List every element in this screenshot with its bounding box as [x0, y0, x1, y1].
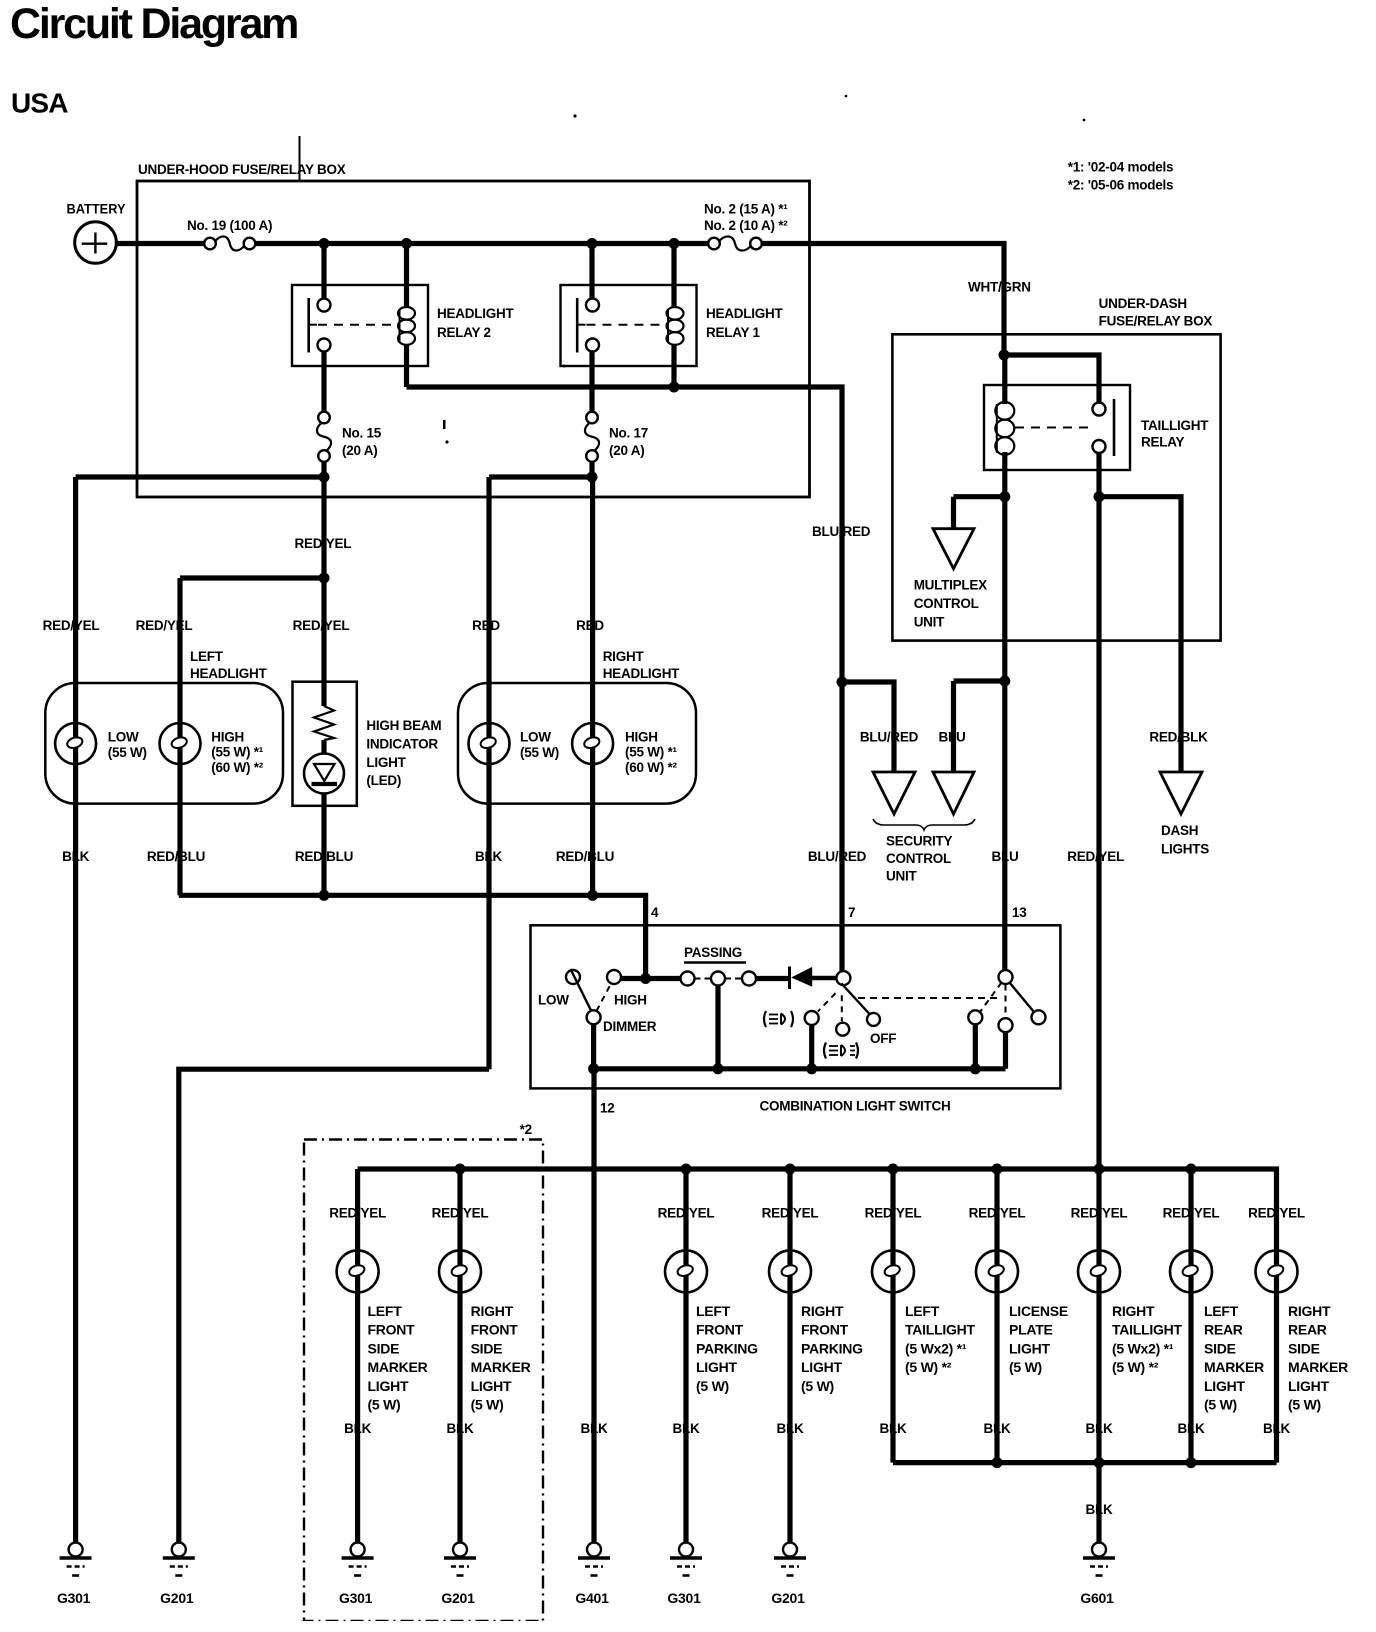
svg-text:DASH: DASH [1161, 823, 1198, 838]
svg-text:RED/YEL: RED/YEL [1248, 1206, 1305, 1221]
svg-text:BLK: BLK [62, 849, 89, 864]
svg-text:SECURITY: SECURITY [886, 834, 953, 849]
svg-text:HEADLIGHT: HEADLIGHT [190, 666, 267, 681]
svg-text:CONTROL: CONTROL [914, 596, 979, 611]
svg-text:(60 W) *²: (60 W) *² [211, 760, 264, 775]
svg-text:LEFT: LEFT [905, 1303, 940, 1319]
svg-text:HIGH: HIGH [614, 993, 647, 1008]
svg-text:No. 17: No. 17 [609, 426, 648, 441]
svg-text:RED/YEL: RED/YEL [43, 618, 100, 633]
svg-text:REAR: REAR [1288, 1322, 1327, 1338]
svg-text:RED/YEL: RED/YEL [969, 1206, 1026, 1221]
svg-text:(55 W): (55 W) [108, 745, 147, 760]
svg-text:(5 W): (5 W) [801, 1378, 834, 1394]
svg-text:RED: RED [576, 618, 604, 633]
svg-text:MARKER: MARKER [1204, 1359, 1264, 1375]
svg-text:TAILLIGHT: TAILLIGHT [1112, 1322, 1183, 1338]
svg-text:BLK: BLK [581, 1421, 608, 1436]
svg-text:G301: G301 [339, 1590, 373, 1606]
svg-text:LEFT: LEFT [368, 1303, 403, 1319]
svg-text:RED/BLK: RED/BLK [1149, 730, 1208, 745]
svg-text:BLK: BLK [1263, 1421, 1290, 1436]
svg-text:PLATE: PLATE [1009, 1322, 1053, 1338]
svg-text:HIGH BEAM: HIGH BEAM [366, 718, 441, 733]
svg-text:LOW: LOW [108, 730, 139, 745]
svg-text:LIGHT: LIGHT [471, 1378, 512, 1394]
svg-text:LEFT: LEFT [696, 1303, 731, 1319]
svg-text:UNDER-HOOD FUSE/RELAY BOX: UNDER-HOOD FUSE/RELAY BOX [138, 162, 346, 177]
svg-text:(LED): (LED) [366, 773, 401, 788]
svg-text:(20 A): (20 A) [342, 443, 378, 458]
svg-text:No. 2 (15 A) *¹: No. 2 (15 A) *¹ [704, 202, 788, 217]
svg-text:BLU/RED: BLU/RED [808, 849, 867, 864]
svg-text:LIGHT: LIGHT [801, 1359, 842, 1375]
svg-text:LIGHT: LIGHT [696, 1359, 737, 1375]
svg-text:(20 A): (20 A) [609, 443, 645, 458]
svg-text:G301: G301 [667, 1590, 701, 1606]
svg-text:RED/BLU: RED/BLU [147, 849, 205, 864]
svg-text:UNIT: UNIT [914, 615, 945, 630]
svg-text:REAR: REAR [1204, 1322, 1243, 1338]
svg-text:G401: G401 [575, 1590, 609, 1606]
svg-text:BATTERY: BATTERY [67, 202, 126, 217]
svg-text:FRONT: FRONT [368, 1322, 416, 1338]
svg-text:(5 W): (5 W) [471, 1397, 504, 1413]
svg-text:(60 W) *²: (60 W) *² [625, 760, 678, 775]
svg-text:BLK: BLK [673, 1421, 700, 1436]
svg-text:BLK: BLK [344, 1421, 371, 1436]
svg-text:*1: '02-04 models: *1: '02-04 models [1068, 160, 1174, 175]
svg-text:RED/BLU: RED/BLU [295, 849, 353, 864]
svg-text:SIDE: SIDE [1288, 1340, 1320, 1356]
svg-text:MARKER: MARKER [1288, 1359, 1348, 1375]
svg-text:RED/YEL: RED/YEL [1071, 1206, 1128, 1221]
svg-text:RED/YEL: RED/YEL [293, 618, 350, 633]
svg-text:SIDE: SIDE [1204, 1340, 1236, 1356]
svg-text:(55 W) *¹: (55 W) *¹ [625, 745, 678, 760]
svg-text:COMBINATION LIGHT SWITCH: COMBINATION LIGHT SWITCH [760, 1099, 951, 1114]
svg-text:G201: G201 [160, 1590, 194, 1606]
svg-text:BLK: BLK [447, 1421, 474, 1436]
svg-text:HIGH: HIGH [211, 730, 244, 745]
svg-text:WHT/GRN: WHT/GRN [968, 280, 1031, 295]
svg-text:TAILLIGHT: TAILLIGHT [1141, 418, 1209, 433]
svg-text:G201: G201 [441, 1590, 475, 1606]
svg-text:(55 W): (55 W) [520, 745, 559, 760]
svg-text:RED/BLU: RED/BLU [556, 849, 614, 864]
svg-text:HEADLIGHT: HEADLIGHT [706, 306, 783, 321]
svg-text:No. 2 (10 A) *²: No. 2 (10 A) *² [704, 218, 788, 233]
svg-text:RED/YEL: RED/YEL [658, 1206, 715, 1221]
svg-text:RED/YEL: RED/YEL [865, 1206, 922, 1221]
svg-text:RED/YEL: RED/YEL [1067, 849, 1124, 864]
svg-text:(5 Wx2) *¹: (5 Wx2) *¹ [1112, 1340, 1174, 1356]
svg-text:OFF: OFF [870, 1031, 896, 1046]
svg-text:LOW: LOW [538, 993, 569, 1008]
svg-text:(5 W): (5 W) [1204, 1397, 1237, 1413]
svg-text:(55 W) *¹: (55 W) *¹ [211, 745, 264, 760]
svg-text:TAILLIGHT: TAILLIGHT [905, 1322, 976, 1338]
svg-text:RIGHT: RIGHT [603, 649, 645, 664]
svg-text:INDICATOR: INDICATOR [366, 737, 438, 752]
svg-text:BLK: BLK [984, 1421, 1011, 1436]
svg-text:13: 13 [1012, 905, 1027, 920]
svg-text:RED/YEL: RED/YEL [295, 536, 352, 551]
svg-text:LIGHT: LIGHT [1204, 1378, 1245, 1394]
svg-text:7: 7 [848, 905, 855, 920]
svg-text:FUSE/RELAY BOX: FUSE/RELAY BOX [1099, 314, 1213, 329]
svg-text:RELAY 1: RELAY 1 [706, 325, 761, 340]
svg-text:RED/YEL: RED/YEL [762, 1206, 819, 1221]
svg-text:PARKING: PARKING [696, 1340, 758, 1356]
svg-text:FRONT: FRONT [471, 1322, 519, 1338]
svg-text:MARKER: MARKER [471, 1359, 531, 1375]
svg-text:12: 12 [600, 1101, 615, 1116]
svg-text:RED/YEL: RED/YEL [1163, 1206, 1220, 1221]
svg-text:BLU/RED: BLU/RED [860, 730, 919, 745]
svg-text:MULTIPLEX: MULTIPLEX [914, 578, 987, 593]
svg-text:RED/YEL: RED/YEL [136, 618, 193, 633]
svg-text:RIGHT: RIGHT [801, 1303, 844, 1319]
svg-text:HEADLIGHT: HEADLIGHT [603, 666, 680, 681]
svg-text:LIGHTS: LIGHTS [1161, 842, 1209, 857]
svg-text:UNDER-DASH: UNDER-DASH [1099, 296, 1187, 311]
svg-text:BLK: BLK [1086, 1502, 1113, 1517]
svg-text:RED/YEL: RED/YEL [432, 1206, 489, 1221]
svg-text:UNIT: UNIT [886, 869, 917, 884]
svg-text:G201: G201 [771, 1590, 805, 1606]
svg-text:(5 W) *²: (5 W) *² [1112, 1359, 1159, 1375]
svg-text:FRONT: FRONT [696, 1322, 744, 1338]
svg-text:G301: G301 [57, 1590, 91, 1606]
svg-text:LIGHT: LIGHT [1288, 1378, 1329, 1394]
svg-text:G601: G601 [1080, 1590, 1114, 1606]
svg-text:LICENSE: LICENSE [1009, 1303, 1068, 1319]
svg-text:LEFT: LEFT [1204, 1303, 1239, 1319]
svg-text:(5 W): (5 W) [368, 1397, 401, 1413]
svg-text:BLK: BLK [880, 1421, 907, 1436]
svg-text:FRONT: FRONT [801, 1322, 849, 1338]
svg-text:(5 W) *²: (5 W) *² [905, 1359, 952, 1375]
svg-text:SIDE: SIDE [368, 1340, 400, 1356]
svg-text:MARKER: MARKER [368, 1359, 428, 1375]
svg-text:HEADLIGHT: HEADLIGHT [437, 306, 514, 321]
svg-text:*2: *2 [520, 1122, 532, 1137]
svg-text:(5 W): (5 W) [1288, 1397, 1321, 1413]
svg-text:BLU: BLU [939, 730, 966, 745]
svg-text:PASSING: PASSING [684, 945, 742, 960]
svg-text:BLU/RED: BLU/RED [812, 524, 871, 539]
svg-text:BLK: BLK [1178, 1421, 1205, 1436]
svg-text:RED/YEL: RED/YEL [329, 1206, 386, 1221]
svg-text:(5 W): (5 W) [696, 1378, 729, 1394]
svg-text:LOW: LOW [520, 730, 551, 745]
svg-text:RED: RED [472, 618, 500, 633]
svg-text:PARKING: PARKING [801, 1340, 863, 1356]
svg-text:HIGH: HIGH [625, 730, 658, 745]
svg-text:Circuit Diagram: Circuit Diagram [10, 0, 297, 48]
svg-text:BLK: BLK [475, 849, 502, 864]
svg-text:LEFT: LEFT [190, 649, 224, 664]
svg-text:LIGHT: LIGHT [366, 755, 406, 770]
svg-text:4: 4 [651, 905, 659, 920]
svg-text:No. 19 (100 A): No. 19 (100 A) [187, 218, 272, 233]
svg-text:(5 W): (5 W) [1009, 1359, 1042, 1375]
svg-text:BLK: BLK [1086, 1421, 1113, 1436]
svg-text:BLK: BLK [777, 1421, 804, 1436]
svg-text:DIMMER: DIMMER [603, 1019, 657, 1034]
svg-text:RIGHT: RIGHT [1112, 1303, 1155, 1319]
svg-text:CONTROL: CONTROL [886, 851, 951, 866]
svg-text:RELAY: RELAY [1141, 435, 1185, 450]
svg-text:*2: '05-06 models: *2: '05-06 models [1068, 178, 1174, 193]
svg-text:RELAY 2: RELAY 2 [437, 325, 491, 340]
svg-text:(5 Wx2) *¹: (5 Wx2) *¹ [905, 1340, 967, 1356]
svg-text:SIDE: SIDE [471, 1340, 503, 1356]
svg-text:RIGHT: RIGHT [471, 1303, 514, 1319]
svg-text:LIGHT: LIGHT [1009, 1340, 1050, 1356]
svg-text:LIGHT: LIGHT [368, 1378, 409, 1394]
svg-text:USA: USA [11, 88, 68, 119]
svg-text:BLU: BLU [992, 849, 1019, 864]
svg-text:No. 15: No. 15 [342, 426, 382, 441]
svg-text:RIGHT: RIGHT [1288, 1303, 1331, 1319]
